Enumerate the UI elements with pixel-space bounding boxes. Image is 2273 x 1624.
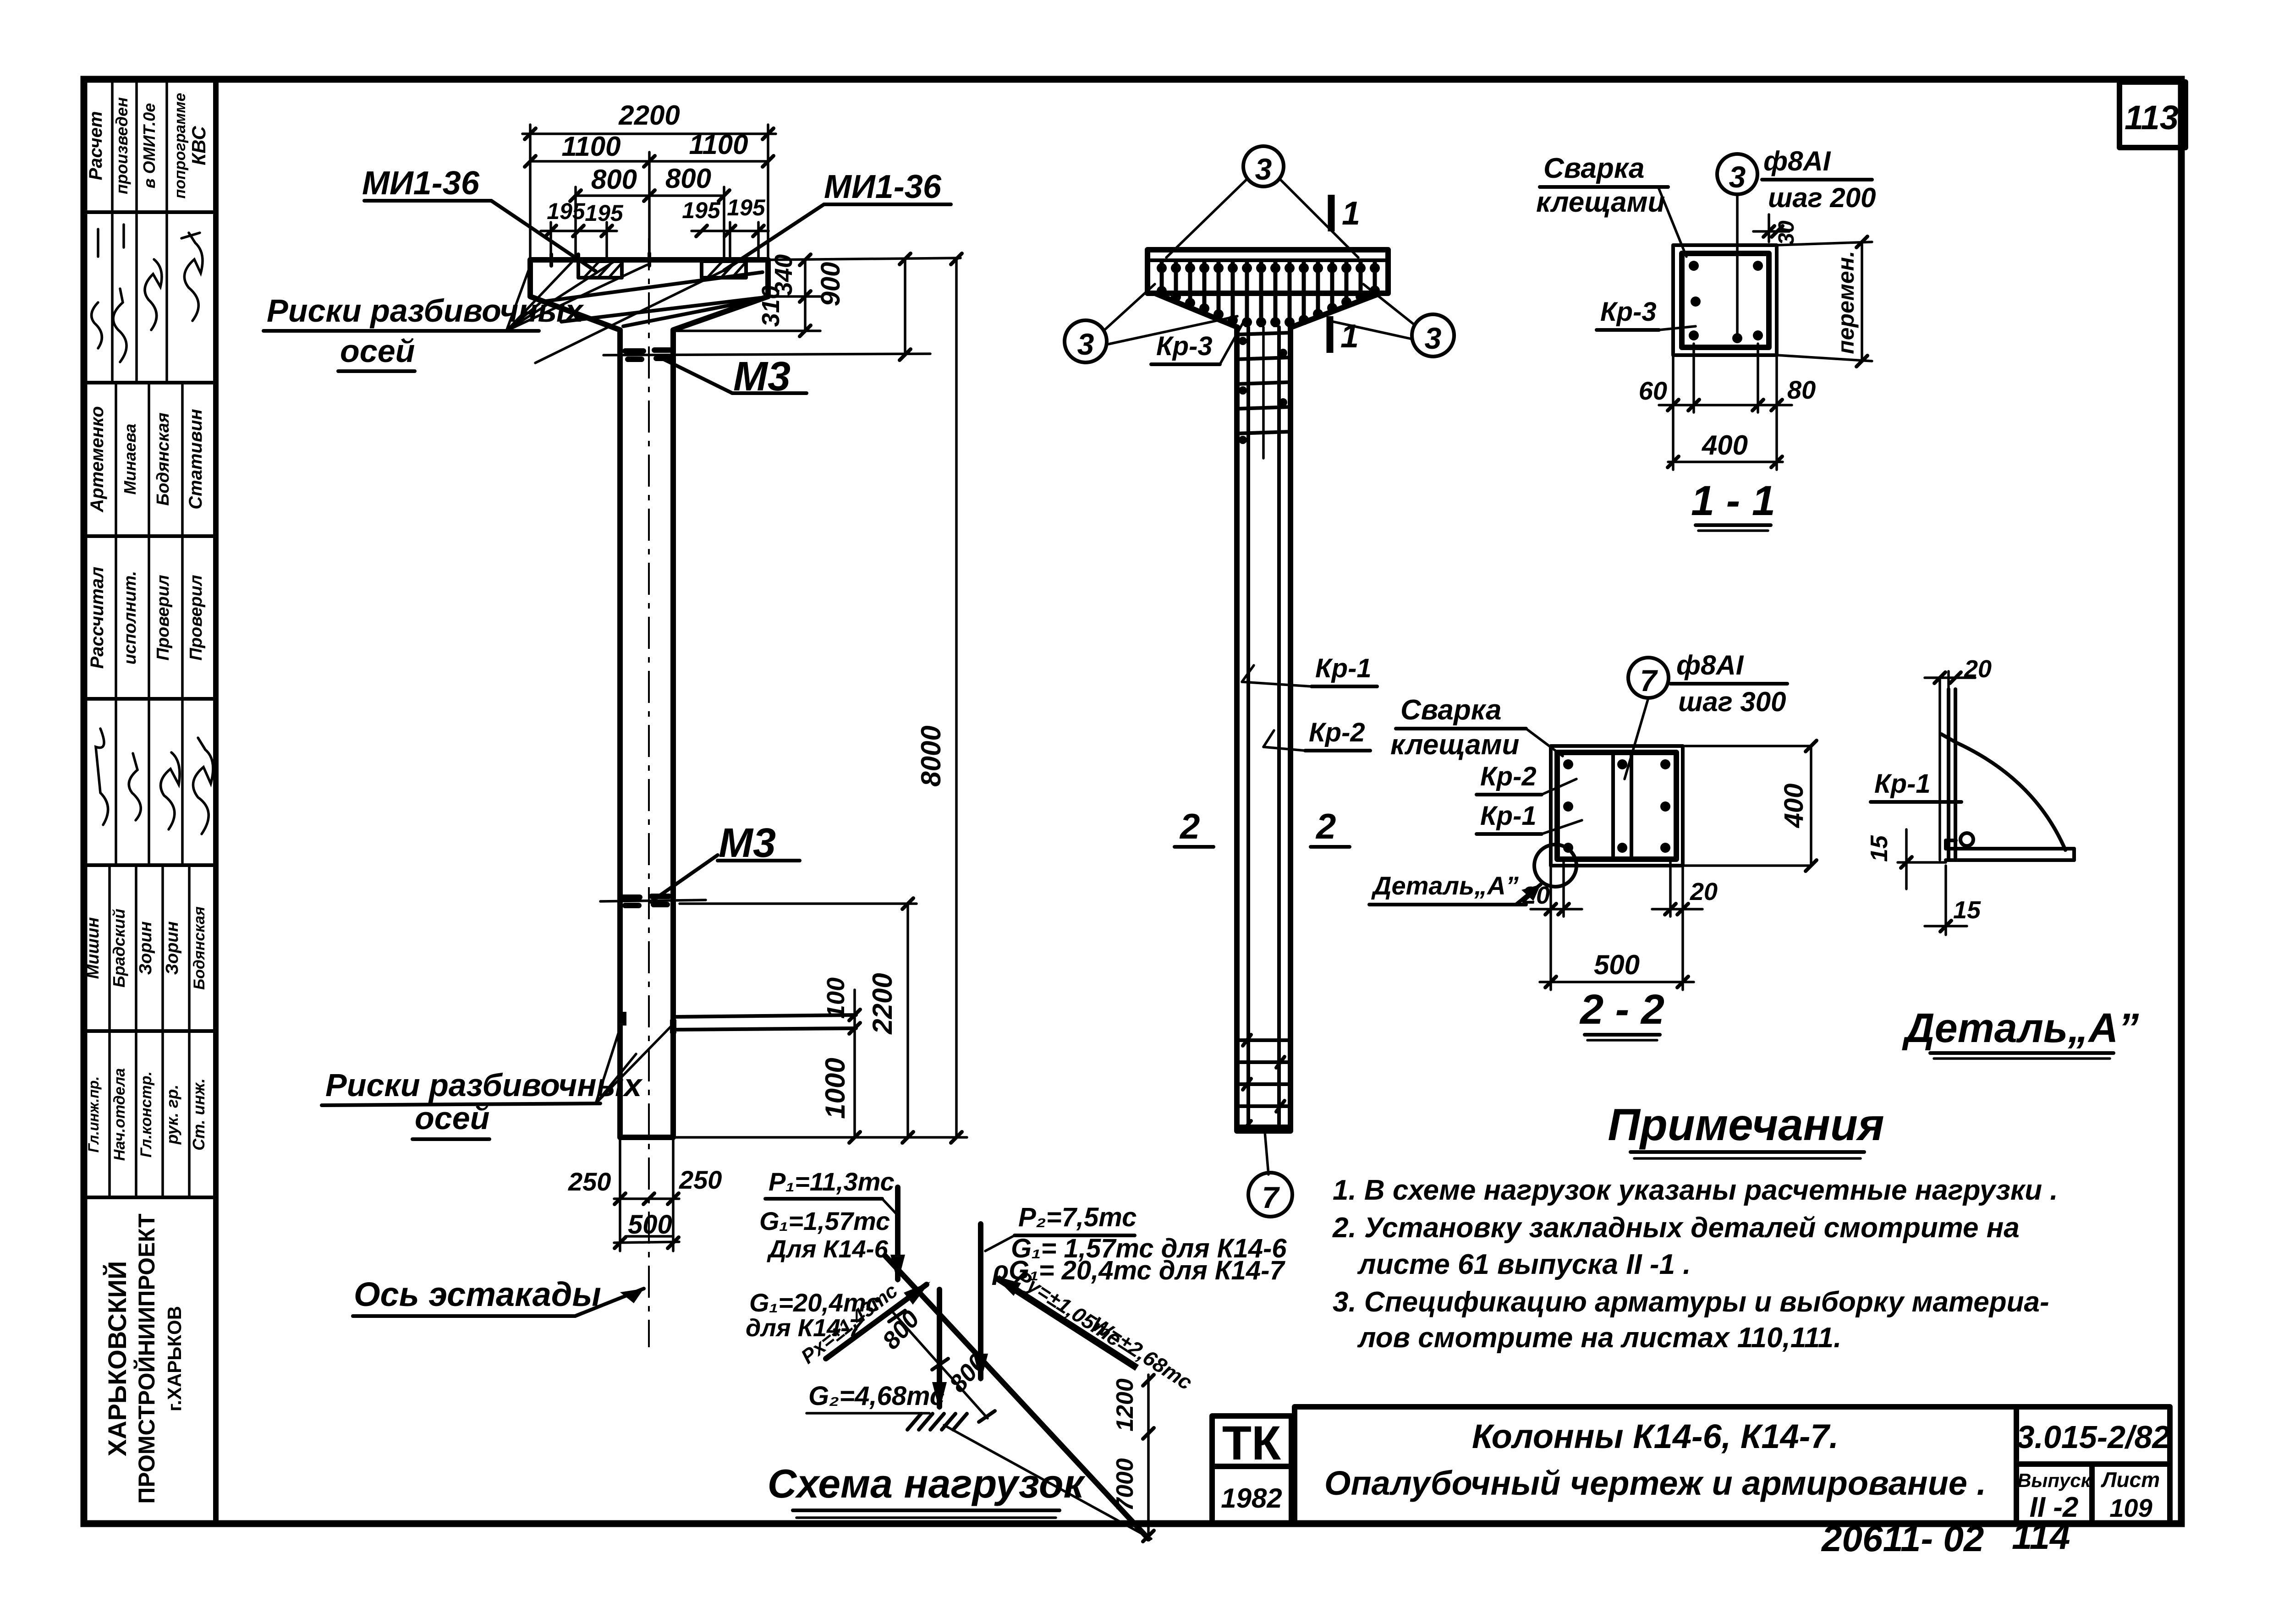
svg-text:195: 195 xyxy=(547,198,586,224)
svg-text:1200: 1200 xyxy=(1112,1378,1138,1432)
svg-text:900: 900 xyxy=(816,262,846,307)
embedded plate at 1000 level xyxy=(673,1015,856,1030)
svg-text:Кр-3: Кр-3 xyxy=(1600,297,1657,327)
svg-text:Выпуск: Выпуск xyxy=(2017,1470,2092,1491)
dim 400 right 2-2 xyxy=(1779,741,1817,871)
svg-text:1: 1 xyxy=(1342,195,1360,232)
dim 500 bottom 2-2 xyxy=(1540,949,1694,988)
svg-text:Кр-1: Кр-1 xyxy=(1315,653,1372,683)
svg-text:3: 3 xyxy=(1729,160,1746,194)
sidebar row7 roles xyxy=(85,1031,208,1197)
svg-text:Нач.отдела: Нач.отдела xyxy=(111,1068,128,1161)
label axis of trestle xyxy=(353,1275,644,1316)
cap face diagonals xyxy=(543,272,763,326)
dim 8000 xyxy=(673,253,967,1143)
dim 900 right xyxy=(604,253,930,360)
svg-text:Кр-1: Кр-1 xyxy=(1874,769,1931,799)
TK stamp box xyxy=(1212,1416,1291,1470)
label MI1-36 left with leader xyxy=(362,165,596,271)
section 1-1 outer concrete square xyxy=(1673,245,1777,355)
svg-text:лов смотрите на листах 110,111: лов смотрите на листах 110,111. xyxy=(1357,1322,1841,1354)
svg-text:Деталь„А”: Деталь„А” xyxy=(1371,871,1519,900)
sidebar row5 signatures xyxy=(96,699,213,865)
label Kr-2 with leader 2-2 xyxy=(1477,762,1576,795)
svg-text:Ось эстакады: Ось эстакады xyxy=(354,1275,601,1313)
detail A circle on corner xyxy=(1534,845,1576,887)
label f8AI step 200 xyxy=(1762,146,1876,213)
risk ticks lower xyxy=(623,1012,673,1033)
svg-text:30: 30 xyxy=(1774,220,1799,245)
svg-text:Гл.констр.: Гл.констр. xyxy=(137,1071,155,1158)
svg-text:Рассчитал: Рассчитал xyxy=(87,566,107,669)
svg-text:Лист: Лист xyxy=(2101,1468,2160,1492)
svg-text:100: 100 xyxy=(822,977,850,1019)
sidebar org name xyxy=(103,1213,185,1503)
column K14 outline (cap + shaft) xyxy=(530,260,768,1137)
svg-text:1100: 1100 xyxy=(689,129,748,160)
notes title xyxy=(1608,1099,1884,1158)
svg-text:Ст. инж.: Ст. инж. xyxy=(189,1078,208,1151)
svg-text:осей: осей xyxy=(415,1100,489,1136)
dim 400 bottom xyxy=(1668,430,1783,467)
svg-text:ф8АI: ф8АI xyxy=(1763,146,1831,176)
svg-text:Стативин: Стативин xyxy=(186,409,206,509)
svg-text:2. Установку закладных деталей: 2. Установку закладных деталей смотрите … xyxy=(1332,1212,2020,1244)
svg-text:3: 3 xyxy=(1255,152,1272,186)
svg-text:7: 7 xyxy=(1262,1180,1280,1214)
sheet cell xyxy=(2092,1464,2170,1524)
svg-text:G₁=1,57тс: G₁=1,57тс xyxy=(759,1207,890,1235)
svg-text:исполнит.: исполнит. xyxy=(121,571,140,664)
dim 1000 xyxy=(820,1058,860,1143)
dim 340 right xyxy=(768,254,961,336)
section 2-2 stirrup xyxy=(1557,752,1676,859)
svg-text:20611- 02: 20611- 02 xyxy=(1821,1518,1984,1559)
svg-text:310: 310 xyxy=(757,285,785,327)
issue cell xyxy=(2016,1464,2092,1524)
P2 force arrow xyxy=(973,1224,988,1382)
dim 2200 lower vertical xyxy=(680,898,917,1143)
svg-text:ТК: ТК xyxy=(1222,1416,1281,1470)
label risk axes lower xyxy=(322,1018,672,1139)
callout circle 3 left xyxy=(1065,284,1237,362)
svg-text:листе 61 выпуска II -1 .: листе 61 выпуска II -1 . xyxy=(1357,1249,1691,1280)
cap outline reinforcement view xyxy=(1147,250,1388,1131)
svg-text:клещами: клещами xyxy=(1390,729,1519,761)
section 1-1 bar dots xyxy=(1689,261,1763,343)
dim 800 800 xyxy=(570,163,730,260)
svg-text:Примечания: Примечания xyxy=(1608,1099,1884,1150)
svg-text:Риски разбивочных: Риски разбивочных xyxy=(325,1067,643,1103)
P1 force arrow xyxy=(890,1187,905,1283)
label Kr-1 with leader 2-2 xyxy=(1477,801,1582,834)
label Kr-3 xyxy=(1151,320,1245,364)
sidebar stamp column xyxy=(83,79,216,1524)
svg-text:Для К14-6: Для К14-6 xyxy=(767,1235,889,1263)
sidebar row1 calc note xyxy=(86,79,209,212)
svg-text:Кр-2: Кр-2 xyxy=(1309,718,1365,747)
label Kr-1 with leader xyxy=(1242,653,1377,686)
label M3 upper with leader xyxy=(660,354,807,400)
section mark 1-1 lower xyxy=(1330,316,1359,355)
svg-text:114: 114 xyxy=(2012,1516,2070,1557)
detail A bottom plate xyxy=(1946,833,2074,860)
section 1-1 stirrup xyxy=(1682,253,1769,347)
svg-text:80: 80 xyxy=(1787,375,1816,404)
title load scheme xyxy=(768,1461,1086,1518)
svg-text:1100: 1100 xyxy=(561,131,620,162)
M3 embed marks lower xyxy=(600,896,706,905)
title Detail A xyxy=(1902,1005,2139,1059)
svg-text:Сварка: Сварка xyxy=(1543,153,1644,184)
svg-text:195: 195 xyxy=(585,200,624,226)
svg-text:Кр-1: Кр-1 xyxy=(1480,801,1537,831)
svg-text:М3: М3 xyxy=(733,354,791,400)
section mark 2 left xyxy=(1175,806,1213,847)
dims 1200 7000 right xyxy=(944,1375,1154,1542)
svg-text:в ОМИТ.0е: в ОМИТ.0е xyxy=(140,103,159,188)
M3 embed marks upper xyxy=(625,350,672,359)
label risk axes upper xyxy=(264,262,647,371)
callout circle 3 section 1-1 xyxy=(1717,154,1757,339)
Px force arrow xyxy=(797,1279,930,1368)
svg-text:Схема нагрузок: Схема нагрузок xyxy=(768,1461,1086,1506)
svg-text:1. В схеме нагрузок указаны ра: 1. В схеме нагрузок указаны расчетные на… xyxy=(1333,1174,2058,1206)
sidebar row4 roles xyxy=(87,536,206,699)
sidebar row3 names xyxy=(87,383,206,536)
callout circle 7 bottom xyxy=(1248,1132,1292,1217)
dim peremen right xyxy=(1777,236,1872,367)
detail A label Kr-1 xyxy=(1871,769,1961,802)
dim 30 top right xyxy=(1753,214,1799,245)
risk tick marks on cap xyxy=(551,253,649,266)
svg-text:1982: 1982 xyxy=(1221,1483,1282,1514)
dim 1100 1100 xyxy=(525,129,774,260)
svg-text:ф8АI: ф8АI xyxy=(1676,650,1744,680)
svg-text:М3: М3 xyxy=(719,820,776,866)
svg-text:113: 113 xyxy=(2125,99,2179,137)
svg-text:3: 3 xyxy=(1425,321,1442,355)
svg-text:250: 250 xyxy=(568,1167,611,1196)
svg-text:ХАРЬКОВСКИЙ: ХАРЬКОВСКИЙ xyxy=(103,1261,132,1457)
svg-text:400: 400 xyxy=(1779,784,1809,828)
label welding tongs 1-1 xyxy=(1536,153,1686,257)
section 2-2 outer concrete rect xyxy=(1551,746,1683,866)
svg-text:250: 250 xyxy=(679,1165,722,1194)
svg-text:2 - 2: 2 - 2 xyxy=(1579,986,1664,1033)
svg-text:Бодянская: Бодянская xyxy=(154,412,173,505)
dim 800 800 slanted xyxy=(877,1306,995,1422)
svg-text:рук. гр.: рук. гр. xyxy=(163,1085,181,1145)
section 2-2 bar dots xyxy=(1563,759,1670,853)
svg-text:ПРОМСТРОЙНИИПРОЕКТ: ПРОМСТРОЙНИИПРОЕКТ xyxy=(133,1213,159,1503)
1982 box xyxy=(1212,1466,1291,1524)
svg-text:109: 109 xyxy=(2109,1493,2152,1522)
svg-text:Р₂=7,5тс: Р₂=7,5тс xyxy=(1018,1202,1136,1232)
svg-text:Проверил: Проверил xyxy=(187,575,206,661)
dims 60 80 bottom xyxy=(1639,344,1816,470)
svg-text:800: 800 xyxy=(665,163,711,194)
sidebar row2 signatures xyxy=(92,212,203,383)
P1 labels xyxy=(746,1167,896,1342)
svg-text:перемен.: перемен. xyxy=(1833,251,1859,354)
section mark 2 right xyxy=(1311,806,1350,847)
svg-text:2: 2 xyxy=(1179,806,1200,846)
label welding tongs 2-2 xyxy=(1390,694,1563,761)
svg-text:1: 1 xyxy=(1340,318,1359,355)
title 2-2 xyxy=(1579,986,1664,1040)
sidebar row6 names xyxy=(83,865,208,1031)
svg-text:20: 20 xyxy=(1690,878,1718,905)
bottom extension lines xyxy=(568,1137,722,1251)
embedded plate MI1-36 right xyxy=(702,261,746,278)
callout circle 7 section 2-2 xyxy=(1625,658,1669,779)
svg-text:Артеменко: Артеменко xyxy=(87,406,107,512)
dim 100 xyxy=(822,977,860,1137)
label Kr-3 section 1-1 xyxy=(1597,297,1696,330)
svg-text:2200: 2200 xyxy=(867,973,898,1034)
label f8AI step 300 xyxy=(1670,650,1787,717)
svg-text:Зорин: Зорин xyxy=(136,921,155,975)
svg-text:Бодянская: Бодянская xyxy=(191,906,208,990)
svg-text:попрограмме: попрограмме xyxy=(171,93,189,199)
svg-text:15: 15 xyxy=(1953,896,1981,924)
detail A bar Kr-1 vertical xyxy=(1940,678,1955,860)
svg-text:G₂=4,68тс: G₂=4,68тс xyxy=(808,1381,944,1411)
svg-text:15: 15 xyxy=(1866,835,1893,862)
label Kr-2 with leader xyxy=(1263,718,1370,751)
beam axis slanted xyxy=(885,1256,1148,1539)
svg-text:Деталь„А”: Деталь„А” xyxy=(1902,1005,2139,1051)
svg-text:60: 60 xyxy=(1639,376,1667,405)
dim 310 right xyxy=(673,285,820,331)
svg-text:2200: 2200 xyxy=(618,100,680,131)
svg-text:3. Спецификацию арматуры и выб: 3. Спецификацию арматуры и выборку матер… xyxy=(1333,1286,2049,1318)
svg-text:Гл.инж.пр.: Гл.инж.пр. xyxy=(85,1076,102,1153)
detail A dim 15 bottom xyxy=(1925,866,1981,935)
cap vertical bars with hooks xyxy=(1157,261,1380,327)
svg-text:20: 20 xyxy=(1522,882,1550,909)
handwritten archive numbers xyxy=(1821,1516,2070,1559)
svg-text:Опалубочный чертеж и армирован: Опалубочный чертеж и армирование . xyxy=(1324,1464,1986,1502)
bottom stirrup cage xyxy=(1237,1035,1290,1131)
svg-text:195: 195 xyxy=(682,198,721,223)
svg-text:7000: 7000 xyxy=(1112,1458,1138,1511)
column centerline xyxy=(648,238,650,1347)
svg-text:2: 2 xyxy=(1315,806,1336,846)
svg-text:500: 500 xyxy=(1594,949,1640,980)
dims 195 x4 xyxy=(541,195,769,260)
svg-text:КВС: КВС xyxy=(188,126,209,165)
ground hatch xyxy=(907,1414,967,1430)
embedded plate MI1-36 left xyxy=(578,261,622,278)
svg-text:7: 7 xyxy=(1640,664,1658,697)
callout circle 3 right xyxy=(1329,284,1454,357)
G2 force arrow xyxy=(807,1289,947,1413)
svg-text:1000: 1000 xyxy=(820,1058,851,1119)
detail A dim 15 left xyxy=(1866,829,1946,889)
section mark 1-1 upper xyxy=(1331,195,1360,232)
svg-text:Расчет: Расчет xyxy=(86,111,106,181)
svg-text:осей: осей xyxy=(340,333,415,369)
svg-text:Проверил: Проверил xyxy=(154,575,173,661)
detail A dim 20 top xyxy=(1925,655,1992,689)
label MI1-36 right with leader xyxy=(535,169,951,363)
svg-text:произведен: произведен xyxy=(112,97,131,194)
svg-text:Р₁=11,3тс: Р₁=11,3тс xyxy=(769,1167,895,1196)
dims 20 20 bottom 2-2 xyxy=(1522,859,1718,990)
detail A concrete spall curve xyxy=(1941,734,2065,850)
svg-text:3.015-2/82: 3.015-2/82 xyxy=(2017,1419,2170,1455)
svg-text:3: 3 xyxy=(1077,327,1094,361)
svg-text:шаг 300: шаг 300 xyxy=(1678,686,1786,717)
svg-text:шаг 200: шаг 200 xyxy=(1768,182,1876,213)
title 1-1 xyxy=(1691,477,1775,531)
label Detail A with arrow xyxy=(1369,871,1541,905)
svg-text:клещами: клещами xyxy=(1536,187,1665,218)
svg-text:Кр-2: Кр-2 xyxy=(1480,762,1537,791)
svg-text:Минаева: Минаева xyxy=(121,423,139,494)
label M3 lower with leader xyxy=(651,820,800,902)
page number box 113 xyxy=(2119,82,2185,148)
callout circle 3 top xyxy=(1166,146,1358,258)
section 2-2 middle bars xyxy=(1613,752,1631,859)
svg-text:20: 20 xyxy=(1964,655,1992,683)
svg-text:Брадский: Брадский xyxy=(110,909,128,988)
svg-text:1 - 1: 1 - 1 xyxy=(1691,477,1775,524)
svg-text:Колонны К14-6, К14-7.: Колонны К14-6, К14-7. xyxy=(1472,1417,1839,1455)
svg-text:Кр-3: Кр-3 xyxy=(1156,331,1213,361)
W wind arrow xyxy=(994,1265,1197,1394)
dim 2200 top xyxy=(522,100,776,260)
svg-text:800: 800 xyxy=(591,164,637,195)
svg-text:Зорин: Зорин xyxy=(163,921,182,975)
series number cell xyxy=(2016,1407,2170,1464)
main title box xyxy=(1295,1407,2016,1524)
dim 500 bottom xyxy=(614,1210,679,1248)
svg-text:8000: 8000 xyxy=(916,725,946,786)
svg-text:Сварка: Сварка xyxy=(1400,694,1501,726)
shaft longitudinal bars xyxy=(1248,327,1279,1131)
svg-text:195: 195 xyxy=(727,195,766,220)
svg-text:МИ1-36: МИ1-36 xyxy=(824,169,942,205)
P2 labels xyxy=(985,1202,1287,1285)
svg-text:МИ1-36: МИ1-36 xyxy=(362,165,480,202)
svg-text:г.ХАРЬКОВ: г.ХАРЬКОВ xyxy=(164,1306,185,1411)
svg-text:400: 400 xyxy=(1702,430,1748,461)
stirrups Kr-3 below cap xyxy=(1237,333,1290,444)
